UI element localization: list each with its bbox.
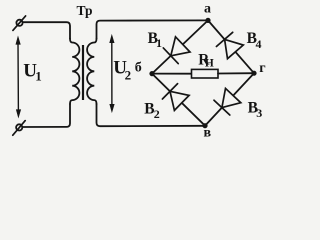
- svg-text:1: 1: [156, 36, 162, 50]
- svg-text:4: 4: [256, 37, 262, 51]
- wire bottom-left (terminal to transformer primary): [23, 104, 70, 127]
- resistor Rn body: [192, 69, 219, 78]
- node g junction dot: [251, 71, 256, 76]
- transformer core: [82, 45, 84, 100]
- svg-text:2: 2: [154, 107, 160, 121]
- wire bridge arm a-g: [208, 20, 254, 73]
- terminal bottom-left: [13, 121, 25, 136]
- svg-text:в: в: [204, 126, 212, 141]
- wire top-right (secondary to node a): [97, 20, 209, 38]
- wire bridge arm b-v: [152, 74, 205, 126]
- label V2: [144, 100, 160, 121]
- label U2: [113, 58, 131, 83]
- diode V1: [163, 37, 190, 64]
- label Rn (load resistor): [198, 51, 214, 69]
- diode V3: [214, 88, 241, 115]
- svg-text:2: 2: [125, 67, 132, 82]
- diode V4: [216, 32, 243, 58]
- U2 arrow (voltage arrow): [110, 35, 115, 112]
- svg-text:Н: Н: [205, 58, 214, 70]
- wire bridge arm v-g: [205, 73, 254, 126]
- wire bottom-right (secondary to node v): [97, 104, 206, 126]
- label V1: [148, 30, 162, 50]
- svg-text:г: г: [259, 61, 265, 76]
- label U1: [23, 61, 41, 84]
- node b junction dot: [149, 71, 154, 76]
- U1 arrow (voltage arrow): [16, 37, 21, 118]
- wire b to resistor: [152, 73, 192, 75]
- node v junction dot: [202, 123, 207, 128]
- svg-text:3: 3: [256, 106, 262, 120]
- svg-text:Тр: Тр: [77, 3, 93, 18]
- wire top-left (terminal to transformer primary): [23, 22, 70, 38]
- label V3: [248, 99, 263, 120]
- svg-text:б: б: [135, 61, 142, 76]
- transformer secondary winding W2: [87, 39, 96, 105]
- transformer primary winding W1: [70, 39, 79, 105]
- terminal top-left: [13, 16, 26, 31]
- label V4: [247, 30, 262, 51]
- svg-text:а: а: [204, 2, 211, 17]
- diode V2: [162, 84, 189, 111]
- wire resistor to g: [218, 72, 254, 74]
- node a junction dot: [205, 18, 210, 23]
- wire bridge arm b-a: [152, 20, 208, 73]
- svg-text:1: 1: [35, 69, 42, 84]
